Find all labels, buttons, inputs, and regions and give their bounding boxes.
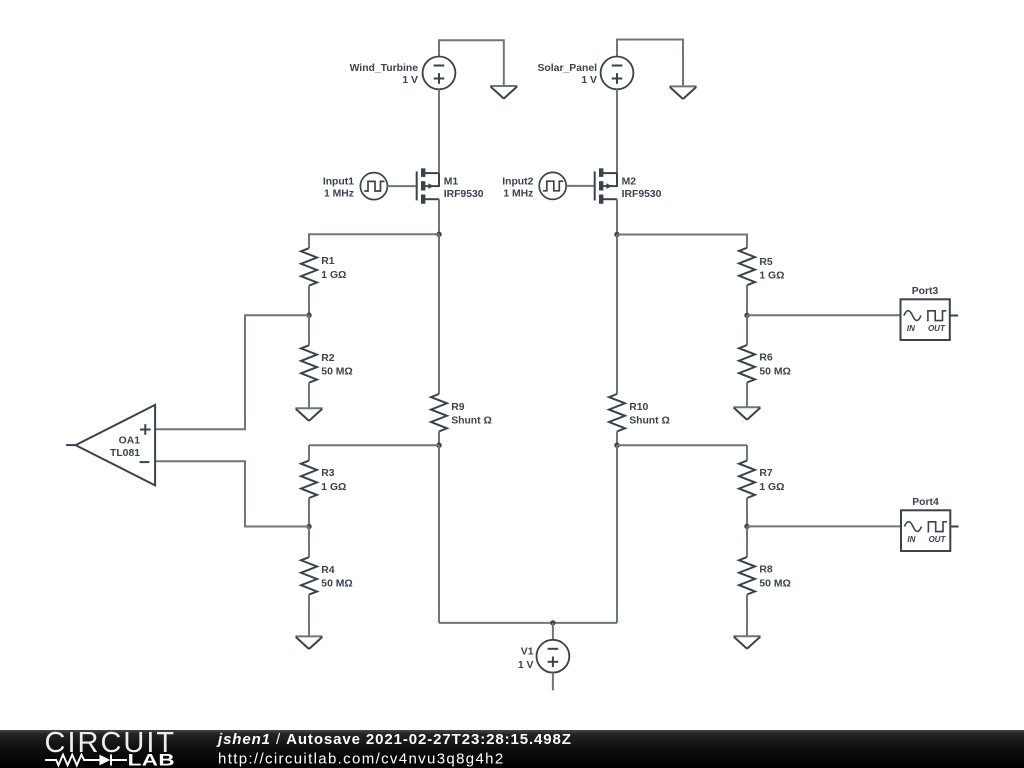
wire: node to R8 top (746, 526, 748, 557)
svg-text:R10: R10 (629, 402, 648, 413)
label R9 Shunt Ω (451, 402, 492, 427)
transistor M1 (417, 168, 439, 204)
wire: R9 bottom to node (438, 431, 440, 445)
junction M1 drain node (436, 232, 441, 237)
svg-text:1 V: 1 V (518, 660, 534, 671)
resistor R4 (301, 557, 317, 594)
label R3 1 GΩ (321, 468, 346, 493)
wire: R10 node down to bottom rail (616, 445, 618, 623)
wire: node to op-amp + input (155, 315, 309, 429)
wire: Wind_Turbine to M1 source (438, 89, 440, 173)
svg-text:R1: R1 (321, 256, 335, 267)
label V1 1 V (518, 646, 534, 671)
resistor R6 (739, 345, 755, 382)
junction R7-R8 node (744, 524, 749, 529)
wire: rail to R7 top (746, 445, 748, 460)
svg-text:V1: V1 (521, 646, 534, 657)
transistor M2 (595, 168, 617, 204)
wire: R7 bottom to node (746, 498, 748, 526)
svg-text:1 GΩ: 1 GΩ (759, 482, 784, 493)
square source Input2 (539, 172, 566, 199)
svg-text:Shunt Ω: Shunt Ω (629, 416, 670, 427)
wire: rail to V1 (552, 623, 554, 640)
resistor R10 (609, 394, 625, 431)
svg-text:OUT: OUT (928, 535, 946, 544)
wire: R5 bottom to node (746, 285, 748, 315)
resistor R2 (301, 345, 317, 382)
logo LAB (128, 751, 175, 768)
svg-text:50 MΩ: 50 MΩ (759, 366, 790, 377)
ground top-left (490, 86, 517, 99)
resistor R9 (431, 394, 447, 431)
wire: R4 bottom to ground (308, 595, 310, 637)
label Wind_Turbine 1 V (350, 63, 419, 86)
svg-text:LAB: LAB (128, 751, 175, 768)
footer text line 1 (216, 731, 572, 748)
resistor R3 (301, 461, 317, 498)
ground R2 (295, 408, 322, 421)
svg-text:50 MΩ: 50 MΩ (321, 367, 352, 378)
junction R9 bottom node (436, 443, 441, 448)
wire: M1 drain down to node (438, 199, 440, 234)
wire: Input1 to M1 gate (387, 185, 416, 187)
wire: R10 bottom to node (616, 431, 618, 445)
svg-text:Solar_Panel: Solar_Panel (538, 63, 598, 74)
label Solar_Panel 1 V (538, 63, 598, 86)
label R4 50 MΩ (321, 565, 352, 590)
wire: R1 bottom to node (308, 286, 310, 316)
footer text line 2 (218, 751, 505, 768)
svg-text:1 GΩ: 1 GΩ (321, 482, 346, 493)
junction V1 top node (550, 620, 555, 625)
wire: op-amp - input to R3-R4 node (155, 461, 309, 526)
wire: node to R5 top (617, 235, 747, 248)
svg-text:IRF9530: IRF9530 (622, 189, 662, 200)
wire: R2 bottom to ground (308, 383, 310, 409)
svg-text:50 MΩ: 50 MΩ (321, 579, 352, 590)
label Input1 1 MHz (323, 177, 354, 200)
svg-text:Shunt Ω: Shunt Ω (451, 416, 492, 427)
wire: Solar_Panel top to ground elbow (617, 40, 683, 86)
wire: Input2 to M2 gate (566, 185, 595, 187)
wire: node to R4 top (308, 527, 310, 558)
label R1 1 GΩ (321, 256, 346, 281)
label OA1 TL081 (110, 436, 140, 460)
junction R10 bottom node (614, 443, 619, 448)
wire: M2 node down to R10 (616, 235, 618, 395)
wire: bottom rail (439, 622, 617, 624)
svg-text:1 GΩ: 1 GΩ (321, 270, 346, 281)
wire: node to R2 top (308, 315, 310, 345)
svg-text:R6: R6 (759, 353, 773, 364)
junction R5-R6 node (744, 313, 749, 318)
svg-text:R2: R2 (321, 353, 335, 364)
label Port3 (912, 286, 939, 297)
svg-text:1 MHz: 1 MHz (503, 189, 533, 200)
svg-text:R4: R4 (321, 565, 335, 576)
label R6 50 MΩ (759, 353, 790, 378)
svg-text:1 V: 1 V (402, 75, 418, 86)
wire: Wind_Turbine top to ground elbow (439, 40, 504, 85)
wire: R10 node to R7 top rail (617, 444, 747, 446)
svg-text:OUT: OUT (928, 324, 946, 333)
svg-text:Input1: Input1 (323, 177, 354, 188)
wire: node to Port4 (747, 525, 901, 527)
wire: R9 node down to bottom rail (438, 445, 440, 623)
logo CIRCUIT (45, 727, 177, 759)
svg-text:TL081: TL081 (110, 448, 140, 459)
wire: M1 node down to R9 (438, 234, 440, 394)
port Port3 (901, 299, 959, 340)
svg-text:R9: R9 (451, 402, 465, 413)
voltage source Solar_Panel (601, 57, 634, 90)
ground top-right (669, 86, 696, 99)
footer bar (0, 730, 1024, 768)
svg-text:IN: IN (907, 535, 915, 544)
svg-text:Input2: Input2 (502, 177, 533, 188)
junction M2 drain node (614, 232, 619, 237)
wire: R9 node to R3 top rail (309, 444, 439, 446)
resistor R7 (739, 461, 755, 498)
resistor R5 (739, 248, 755, 285)
svg-text:1 GΩ: 1 GΩ (759, 271, 784, 282)
square source Input1 (360, 173, 387, 200)
svg-text:R5: R5 (759, 257, 773, 268)
op-amp OA1 (66, 405, 155, 486)
svg-text:OA1: OA1 (119, 436, 141, 447)
svg-text:IRF9530: IRF9530 (444, 189, 484, 200)
svg-text:Port4: Port4 (912, 497, 939, 508)
wire: R6 bottom to ground (746, 383, 748, 408)
resistor R1 (301, 248, 317, 285)
wire: rail to R3 top (308, 445, 310, 460)
svg-text:http://circuitlab.com/cv4nvu3q: http://circuitlab.com/cv4nvu3q8g4h2 (218, 751, 505, 768)
voltage source Wind_Turbine (423, 57, 456, 90)
wire: V1 bottom stub (552, 673, 554, 691)
label R2 50 MΩ (321, 353, 352, 378)
svg-text:IN: IN (907, 324, 915, 333)
ground R8 (733, 636, 760, 649)
resistor R8 (739, 557, 755, 594)
svg-text:1 MHz: 1 MHz (324, 189, 354, 200)
wire: M2 drain down to node (616, 199, 618, 234)
svg-text:Wind_Turbine: Wind_Turbine (350, 63, 419, 74)
wire: Solar_Panel to M2 source (616, 89, 618, 173)
logo circuit glyph (resistor + diode) (45, 754, 127, 765)
ground R4 (295, 636, 322, 649)
svg-text:50 MΩ: 50 MΩ (759, 578, 790, 589)
svg-text:1 V: 1 V (581, 75, 597, 86)
wire: node to R6 top (746, 315, 748, 345)
svg-text:R8: R8 (759, 565, 773, 576)
junction R1-R2 node (306, 313, 311, 318)
label R7 1 GΩ (759, 468, 784, 493)
wire: R8 bottom to ground (746, 595, 748, 637)
label Input2 1 MHz (502, 177, 533, 200)
label R8 50 MΩ (759, 565, 790, 590)
label Port4 (912, 497, 939, 508)
label R10 Shunt Ω (629, 402, 670, 427)
label M2 IRF9530 (622, 176, 662, 200)
wire: node to Port3 (747, 314, 901, 316)
wire: node to R1 top (309, 234, 439, 248)
port Port4 (901, 510, 959, 551)
label M1 IRF9530 (444, 176, 484, 200)
label R5 1 GΩ (759, 257, 784, 282)
svg-text:jshen1 / Autosave 2021-02-27T2: jshen1 / Autosave 2021-02-27T23:28:15.49… (216, 731, 572, 748)
svg-text:Port3: Port3 (912, 286, 939, 297)
svg-text:R3: R3 (321, 468, 335, 479)
voltage source V1 (537, 640, 570, 673)
ground R6 (733, 407, 760, 420)
svg-text:M1: M1 (444, 176, 459, 187)
wire: R3 bottom to node (308, 498, 310, 527)
svg-text:M2: M2 (622, 176, 637, 187)
svg-text:R7: R7 (759, 468, 773, 479)
junction R3-R4 node (306, 524, 311, 529)
